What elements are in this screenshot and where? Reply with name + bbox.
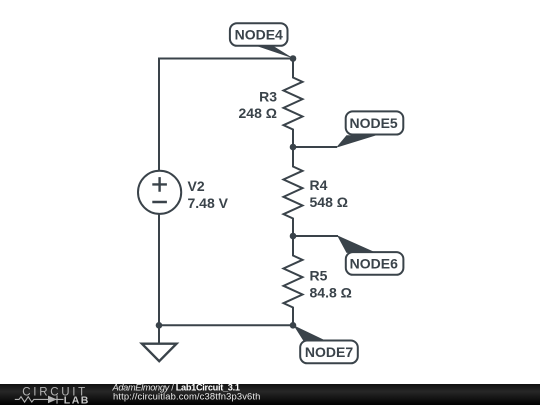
- callout NODE7: [294, 325, 358, 363]
- footer bar: [0, 384, 540, 405]
- svg-text:84.8 Ω: 84.8 Ω: [310, 285, 352, 301]
- wire NODE6 stub: [293, 235, 338, 237]
- node NODE5 junction dot: [290, 144, 297, 151]
- svg-text:248 Ω: 248 Ω: [239, 105, 277, 121]
- logo diode triangle: [48, 396, 57, 404]
- svg-text:548 Ω: 548 Ω: [310, 194, 348, 210]
- svg-text:NODE5: NODE5: [349, 115, 397, 131]
- resistor R3: [284, 59, 303, 148]
- resistor R4: [284, 147, 303, 236]
- callout NODE6: [337, 235, 403, 275]
- svg-text:R3: R3: [259, 89, 277, 105]
- node NODE6 junction dot: [290, 233, 297, 240]
- logo schematic squiggle: [15, 395, 64, 403]
- svg-text:NODE7: NODE7: [305, 344, 353, 360]
- ground stub wire: [158, 325, 160, 343]
- svg-text:7.48 V: 7.48 V: [188, 195, 229, 211]
- wire V2 bottom lead: [158, 215, 160, 326]
- wire NODE5 stub: [293, 146, 337, 148]
- node NODE7 junction dot: [290, 322, 297, 329]
- voltage source V2: [138, 171, 181, 214]
- svg-text:NODE4: NODE4: [235, 27, 283, 43]
- svg-text:R4: R4: [310, 177, 328, 193]
- svg-text:V2: V2: [188, 178, 205, 194]
- resistor R5: [284, 236, 303, 325]
- callout NODE4: [230, 23, 294, 58]
- node ground junction dot: [156, 322, 163, 329]
- svg-text:R5: R5: [310, 268, 328, 284]
- svg-text:LAB: LAB: [64, 395, 90, 405]
- callout NODE5: [336, 111, 403, 147]
- wire V2 top lead: [158, 58, 160, 172]
- node NODE4 junction dot: [290, 55, 297, 62]
- svg-text:http://circuitlab.com/c38tfn3p: http://circuitlab.com/c38tfn3p3v6th: [113, 391, 261, 402]
- wire bottom horizontal: [159, 324, 293, 326]
- ground: [142, 344, 177, 362]
- wire top horizontal: [159, 58, 293, 60]
- svg-text:NODE6: NODE6: [350, 256, 398, 272]
